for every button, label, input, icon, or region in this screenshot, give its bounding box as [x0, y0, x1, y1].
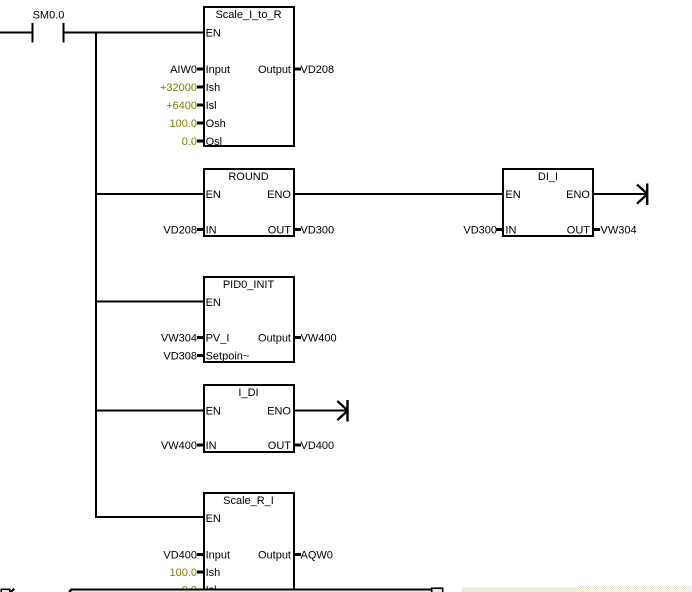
- stub U3 IN: [497, 228, 504, 231]
- svg-text:DI_I: DI_I: [538, 171, 558, 183]
- stub U5 OUT: [295, 444, 302, 447]
- wire: branch to I_DI EN: [96, 410, 203, 412]
- stub U1 Osh: [197, 122, 204, 125]
- svg-text:Scale_R_I: Scale_R_I: [223, 495, 274, 507]
- stub U6 Ish: [197, 571, 204, 574]
- wire: vertical branch rail: [95, 32, 97, 519]
- svg-text:PV_I: PV_I: [206, 333, 230, 345]
- svg-text:VD400: VD400: [163, 550, 197, 562]
- svg-text:IN: IN: [206, 225, 217, 237]
- svg-text:VD308: VD308: [163, 351, 197, 363]
- svg-text:+32000: +32000: [160, 82, 197, 94]
- svg-text:OUT: OUT: [268, 440, 292, 452]
- stub U4 PV_I: [197, 336, 204, 339]
- svg-text:Output: Output: [258, 333, 291, 345]
- arrow: open-wire arrow after I_DI ENO: [337, 400, 348, 422]
- stub U1 Isl: [197, 104, 204, 107]
- window fragment: small framed box at line end: [432, 588, 443, 592]
- block U4 PID0_INIT: [204, 277, 294, 362]
- svg-text:ENO: ENO: [267, 189, 291, 201]
- svg-text:Isl: Isl: [206, 100, 217, 112]
- svg-text:Setpoin~: Setpoin~: [206, 351, 250, 363]
- svg-text:I_DI: I_DI: [238, 387, 258, 399]
- svg-text:100.0: 100.0: [169, 118, 197, 130]
- svg-text:VW304: VW304: [601, 225, 637, 237]
- svg-text:ENO: ENO: [566, 189, 590, 201]
- svg-text:Ish: Ish: [206, 567, 221, 579]
- wire: I_DI ENO to open arrow: [294, 410, 347, 412]
- window fragment: bottom-left diagonal mark: [11, 589, 15, 592]
- contact SM0.0: [32, 23, 65, 43]
- svg-text:+6400: +6400: [166, 100, 197, 112]
- svg-text:Input: Input: [206, 550, 230, 562]
- svg-text:IN: IN: [505, 225, 516, 237]
- svg-text:0.0: 0.0: [182, 136, 197, 148]
- stub U4 Setpoin~: [197, 354, 204, 357]
- stub U6 Output: [295, 553, 302, 556]
- svg-text:EN: EN: [206, 297, 221, 309]
- svg-text:PID0_INIT: PID0_INIT: [223, 279, 275, 291]
- stub U2 IN: [197, 228, 204, 231]
- wire: ROUND ENO to DI_I EN: [294, 193, 503, 195]
- svg-text:Ish: Ish: [206, 82, 221, 94]
- block U1 Scale_I_to_R: [204, 7, 294, 146]
- svg-text:VD400: VD400: [301, 440, 335, 452]
- svg-text:Input: Input: [206, 64, 230, 76]
- window fragment: slanted line start cap: [69, 589, 72, 592]
- svg-text:EN: EN: [206, 406, 221, 418]
- stub U1 Output: [295, 68, 302, 71]
- wire: left power rail to contact SM0.0: [0, 32, 32, 34]
- arrow: open-wire arrow after DI_I ENO: [637, 184, 648, 206]
- stub U3 OUT: [594, 228, 601, 231]
- stub U2 OUT: [295, 228, 302, 231]
- wire: branch to ROUND EN: [96, 193, 203, 195]
- svg-text:VD300: VD300: [463, 225, 497, 237]
- svg-text:OUT: OUT: [567, 225, 591, 237]
- stub U5 IN: [197, 444, 204, 447]
- svg-text:Output: Output: [258, 550, 291, 562]
- svg-text:Scale_I_to_R: Scale_I_to_R: [215, 9, 281, 21]
- wire: branch to Scale_R_I EN: [96, 516, 203, 518]
- svg-text:VW304: VW304: [161, 333, 197, 345]
- wire: branch to PID0_INIT EN: [96, 301, 203, 303]
- svg-text:Osl: Osl: [206, 136, 223, 148]
- window fragment: dithered page-boundary area: [578, 586, 692, 592]
- svg-text:VD208: VD208: [163, 225, 197, 237]
- svg-text:AQW0: AQW0: [301, 550, 333, 562]
- svg-text:IN: IN: [206, 440, 217, 452]
- svg-text:VW400: VW400: [301, 333, 337, 345]
- stub U1 Osl: [197, 140, 204, 143]
- svg-text:VD208: VD208: [301, 64, 335, 76]
- svg-text:ROUND: ROUND: [228, 171, 268, 183]
- svg-text:OUT: OUT: [268, 225, 292, 237]
- svg-text:VW400: VW400: [161, 440, 197, 452]
- svg-text:Osh: Osh: [206, 118, 226, 130]
- window fragment: bottom overlay background: [68, 590, 431, 592]
- window fragment: bottom-left icon box: [1, 589, 10, 592]
- block U2 ROUND: [204, 169, 294, 236]
- wire: DI_I ENO to open arrow: [593, 193, 647, 195]
- svg-text:100.0: 100.0: [169, 567, 197, 579]
- block U6 Scale_R_I: [204, 493, 294, 592]
- block U5 I_DI: [204, 385, 294, 452]
- stub U1 Input: [197, 68, 204, 71]
- stub U6 Input: [197, 553, 204, 556]
- svg-text:EN: EN: [206, 513, 221, 525]
- window fragment: scrollbar strip: [462, 588, 578, 592]
- block U3 DI_I: [503, 169, 593, 236]
- svg-text:EN: EN: [206, 189, 221, 201]
- svg-text:SM0.0: SM0.0: [33, 10, 65, 22]
- svg-text:VD300: VD300: [301, 225, 335, 237]
- svg-text:EN: EN: [206, 28, 221, 40]
- svg-text:AIW0: AIW0: [170, 64, 197, 76]
- wire: contact to block Scale_I_to_R EN, through junction: [65, 32, 204, 34]
- svg-text:ENO: ENO: [267, 406, 291, 418]
- svg-text:Output: Output: [258, 64, 291, 76]
- stub U4 Output: [295, 336, 302, 339]
- window fragment: table header top line: [71, 589, 431, 591]
- svg-text:EN: EN: [505, 189, 520, 201]
- stub U1 Ish: [197, 86, 204, 89]
